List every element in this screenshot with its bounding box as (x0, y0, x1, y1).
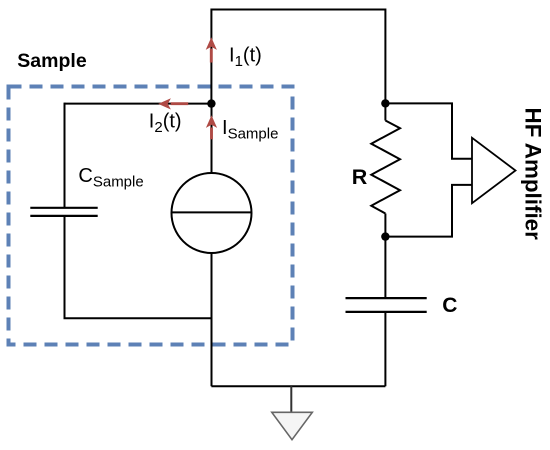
current source I (172, 173, 252, 253)
wire resistor top stub (384, 103, 386, 120)
svg-text:R: R (352, 165, 368, 189)
wire node A left (65, 103, 212, 105)
svg-text:I2(t): I2(t) (149, 111, 182, 137)
ground stub (290, 386, 292, 411)
svg-text:I1(t): I1(t) (229, 44, 262, 70)
capacitor CSample (30, 208, 97, 216)
wire node C to capacitor C (384, 237, 386, 298)
capacitor C (346, 298, 427, 312)
wire capacitor C bottom (384, 313, 386, 386)
wire top loop (211, 10, 385, 104)
wire node B to amp plus (385, 103, 471, 158)
svg-text:CSample: CSample (78, 165, 143, 190)
arrow I1 (206, 37, 217, 62)
wire left branch lower (65, 217, 212, 318)
svg-text:Sample: Sample (17, 50, 87, 72)
op-amp HF Amplifier (472, 138, 516, 203)
svg-text:HF Amplifier: HF Amplifier (521, 108, 546, 241)
sample box (dashed) (9, 87, 293, 345)
wire left branch upper (64, 103, 66, 207)
svg-text:C: C (442, 294, 457, 317)
node B junction (381, 99, 389, 107)
wire node C to amp minus (385, 185, 471, 237)
resistor R (371, 121, 400, 214)
wire current source top stub (211, 104, 213, 174)
arrow ISample (206, 115, 217, 139)
wire current source bottom to ground rail (211, 253, 213, 386)
node A junction (207, 99, 215, 107)
arrow I2 (158, 98, 188, 109)
ground (272, 412, 313, 439)
wire resistor bottom stub (384, 214, 386, 237)
node C junction (381, 232, 389, 240)
svg-text:ISample: ISample (222, 117, 278, 143)
wire bottom rail (211, 385, 385, 387)
